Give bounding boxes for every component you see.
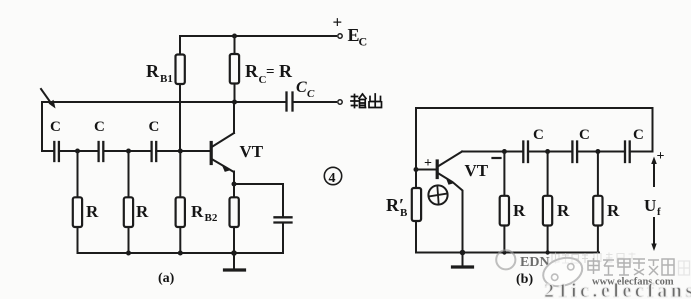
capacitor C2 — [99, 142, 104, 161]
node collector-RC — [232, 100, 237, 105]
wire bottom rail (a) — [78, 252, 284, 254]
svg-text:R: R — [86, 202, 99, 221]
node 1 — [75, 149, 80, 154]
wire — [577, 151, 625, 153]
svg-text:B2: B2 — [205, 212, 218, 224]
resistor Rb1 — [500, 152, 509, 253]
svg-text:21ic.elecfans: 21ic.elecfans — [544, 280, 691, 299]
svg-text:U: U — [644, 196, 656, 215]
label (a) — [158, 271, 175, 286]
capacitor C1 — [54, 142, 59, 161]
node base (b) — [414, 167, 419, 172]
phase source circle — [428, 185, 447, 204]
label (b) — [516, 272, 533, 287]
label + base — [424, 156, 432, 171]
svg-text:f: f — [657, 206, 661, 218]
svg-text:VT: VT — [240, 142, 264, 161]
wire — [104, 150, 152, 152]
svg-text:C: C — [579, 127, 590, 143]
resistor Rb2 — [543, 152, 552, 253]
watermark corner faint char — [679, 261, 690, 275]
svg-text:C: C — [50, 119, 61, 135]
label RB1 — [146, 61, 173, 85]
label RC=R — [245, 61, 293, 86]
wire top supply rail (a) — [180, 35, 336, 37]
wire — [59, 150, 98, 152]
label R1 — [86, 202, 99, 221]
node rail RB2 — [178, 251, 183, 256]
svg-text:R: R — [136, 202, 149, 221]
node rail ground — [231, 250, 237, 256]
circled 4 — [324, 167, 341, 186]
svg-text:C: C — [359, 35, 368, 49]
terminal output — [338, 100, 342, 104]
transistor VT (b) — [416, 152, 463, 253]
resistor RB1 — [176, 36, 185, 151]
wire left vertical (b) — [415, 108, 417, 188]
wire bottom rail (b) — [416, 252, 599, 254]
label shuchu (output) — [351, 94, 382, 108]
label CC — [296, 79, 315, 100]
svg-text:C: C — [296, 79, 307, 96]
capacitor Cb3 — [625, 142, 630, 163]
svg-text:+: + — [333, 13, 343, 32]
wire — [528, 151, 572, 153]
node rail Rb2 — [545, 250, 549, 254]
svg-text:C: C — [307, 88, 315, 100]
resistor RE — [230, 184, 239, 253]
resistor R1 — [73, 151, 82, 253]
label Rb2 — [557, 201, 570, 220]
node top of RC — [232, 34, 237, 39]
svg-text:C: C — [94, 119, 105, 135]
svg-text:(b): (b) — [516, 272, 533, 287]
svg-text:(a): (a) — [158, 271, 175, 286]
node 2 — [126, 149, 131, 154]
svg-text:R: R — [279, 61, 293, 81]
wire base lead — [156, 150, 210, 152]
node rail Rb1 — [502, 250, 506, 254]
resistor Rb3 — [593, 152, 602, 253]
label VT (b) — [465, 161, 489, 180]
node b3 — [595, 149, 600, 154]
terminal EC — [338, 34, 342, 38]
label Cb3 — [633, 127, 644, 143]
node emitter rail — [460, 250, 466, 256]
wire left vertical (a) — [41, 102, 43, 151]
resistor RB2 — [176, 151, 185, 253]
node b1 — [502, 149, 507, 154]
label RB2 — [191, 202, 218, 224]
wire emitter to bypass cap — [234, 184, 283, 217]
watermark circle logo — [496, 250, 515, 269]
svg-text:+: + — [424, 156, 432, 171]
wire feedback rail (a) — [42, 101, 286, 103]
svg-text:R: R — [607, 201, 620, 220]
resistor RC — [230, 36, 239, 102]
capacitor bypass CE — [275, 217, 292, 253]
capacitor Cb1 — [523, 142, 528, 163]
ground (b) — [453, 253, 473, 268]
label Cb2 — [579, 127, 590, 143]
watermark big chinese — [588, 258, 674, 275]
svg-text:4: 4 — [329, 171, 336, 186]
watermark ellipse logo — [540, 253, 586, 291]
label Uf — [644, 196, 661, 218]
svg-text:VT: VT — [465, 161, 489, 180]
label C1 — [50, 119, 61, 135]
feedback arrow — [41, 89, 56, 109]
ground (a) — [225, 253, 245, 270]
node rail R2 — [126, 251, 131, 256]
resistor RB' — [412, 188, 421, 253]
svg-text:C: C — [533, 127, 544, 143]
label RB' — [386, 195, 408, 219]
svg-text:R: R — [146, 61, 160, 81]
capacitor CC — [287, 93, 337, 111]
svg-text:R: R — [191, 202, 204, 221]
svg-text:C: C — [633, 127, 644, 143]
watermark — [496, 250, 691, 299]
wire cap row — [42, 150, 54, 152]
watermark small tagline strokes — [552, 252, 636, 264]
Uf arrow up — [651, 157, 657, 187]
svg-text:R: R — [557, 201, 570, 220]
wire collector line (b) — [462, 151, 523, 153]
capacitor C3 — [152, 142, 157, 161]
node b2 — [545, 149, 550, 154]
label R2 — [136, 202, 149, 221]
svg-text:B1: B1 — [160, 73, 173, 85]
wire top feedback rail (b) — [416, 107, 653, 109]
label + EC — [333, 13, 368, 49]
wire right corner (b) — [630, 108, 653, 152]
node emitter — [232, 182, 237, 187]
label Rb1 — [513, 201, 526, 220]
label C3 — [149, 119, 160, 135]
svg-text:+: + — [657, 149, 665, 164]
label + right — [657, 149, 665, 164]
svg-text:C: C — [149, 119, 160, 135]
label Rb3 — [607, 201, 620, 220]
svg-text:=: = — [266, 64, 275, 80]
label VT — [240, 142, 264, 161]
resistor R2 — [124, 151, 133, 253]
Uf arrow down — [651, 218, 656, 251]
label C2 — [94, 119, 105, 135]
label Cb1 — [533, 127, 544, 143]
node 3 — [178, 149, 183, 154]
svg-text:R: R — [245, 61, 259, 81]
label minus — [493, 157, 501, 159]
capacitor Cb2 — [572, 142, 577, 163]
transistor VT (a) — [211, 102, 234, 184]
svg-text:B: B — [400, 207, 408, 219]
svg-text:R: R — [513, 201, 526, 220]
